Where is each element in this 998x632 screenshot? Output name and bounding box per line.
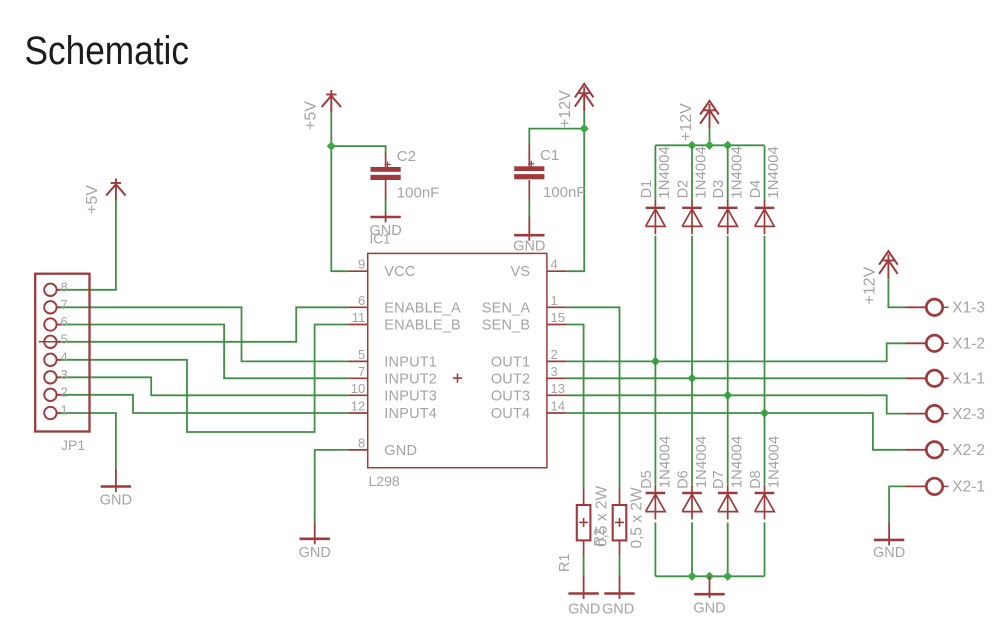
wire R1 to GND segment	[583, 554, 585, 575]
svg-text:L298: L298	[369, 473, 400, 489]
JP1 pin 4	[44, 354, 56, 366]
svg-text:14: 14	[551, 399, 565, 414]
wire IC1 pin 8 to GND	[315, 450, 349, 521]
wire OUT1 row to X1-2	[566, 343, 905, 361]
node junction bottom bus at GND stem	[705, 572, 714, 581]
wire +5V node to C2	[331, 146, 385, 153]
svg-text:1N4004: 1N4004	[765, 436, 782, 489]
resistor R2	[619, 488, 621, 505]
svg-text:GND: GND	[299, 545, 331, 561]
connector JP1 box	[35, 274, 89, 432]
node junction bus at +12V arrow	[705, 141, 714, 150]
svg-text:3: 3	[551, 364, 558, 379]
wire SEN_B to R1	[566, 325, 583, 488]
wire JP1 pin 6 to INPUT2	[57, 325, 349, 379]
wire +5V node to VCC	[331, 109, 348, 272]
svg-text:SEN_A: SEN_A	[482, 300, 531, 316]
wire +12V to X1-3	[888, 278, 905, 307]
pad X1-1	[906, 377, 927, 379]
wire diode column D1/D5	[654, 145, 656, 199]
svg-text:X1-3: X1-3	[952, 300, 985, 317]
IC1 left pin 5 INPUT1	[348, 360, 368, 362]
wire C1 to GND segment	[528, 200, 530, 217]
node junction OUT4 at D4 column	[760, 408, 769, 417]
svg-text:ENABLE_B: ENABLE_B	[384, 318, 461, 334]
pad X2-2	[906, 449, 927, 451]
capacitor C2	[385, 153, 387, 167]
wire JP1 pin 7 to INPUT1	[57, 307, 349, 361]
svg-text:X1-1: X1-1	[952, 371, 985, 388]
IC1 right pin 15 SEN_B	[547, 324, 567, 326]
svg-text:D7: D7	[711, 470, 727, 489]
svg-text:D4: D4	[748, 180, 764, 199]
IC1 left pin 12 INPUT4	[348, 412, 368, 414]
wire GND bus below diodes	[655, 575, 764, 577]
wire diode column D3/D7	[727, 145, 729, 199]
wire OUT4 row to X2-2	[566, 413, 905, 450]
node junction OUT3 at D3 column	[723, 391, 732, 400]
node junction OUT2 at D2 column	[687, 374, 696, 383]
svg-text:GND: GND	[369, 223, 401, 239]
svg-text:100nF: 100nF	[397, 184, 440, 201]
svg-text:SEN_B: SEN_B	[482, 318, 531, 334]
JP1 pin 7	[44, 301, 56, 313]
IC1 left pin 11 ENABLE_B	[348, 324, 368, 326]
svg-text:X2-1: X2-1	[952, 479, 985, 496]
pad X1-3	[906, 306, 927, 308]
wire diode column D2/D6	[691, 145, 693, 199]
capacitor C1	[528, 144, 530, 166]
ground symbol at X2-1	[888, 523, 890, 546]
svg-text:VS: VS	[511, 264, 531, 280]
+5V supply symbol at JP1	[115, 179, 117, 201]
IC1 right pin 3 OUT2	[547, 377, 567, 379]
IC1 right pin 2 OUT1	[547, 360, 567, 362]
diode D4	[755, 207, 775, 209]
svg-text:C1: C1	[540, 147, 559, 164]
resistor R1	[583, 488, 585, 505]
svg-text:1: 1	[551, 293, 558, 308]
svg-text:INPUT4: INPUT4	[384, 406, 437, 422]
svg-text:1N4004: 1N4004	[729, 436, 746, 489]
svg-text:1N4004: 1N4004	[693, 146, 710, 199]
IC1 left pin 9 VCC	[348, 270, 368, 272]
JP1 pin 3	[44, 371, 56, 383]
node junction OUT1 at D1 column	[651, 357, 660, 366]
node junction bottom bus at D6	[687, 572, 696, 581]
svg-text:1N4004: 1N4004	[765, 146, 782, 199]
diode D7	[718, 492, 738, 494]
svg-text:X2-2: X2-2	[952, 442, 985, 459]
wire +12V node to C1	[529, 129, 584, 145]
node junction bottom bus at D7	[723, 572, 732, 581]
JP1 pin 5	[44, 336, 56, 348]
svg-text:1N4004: 1N4004	[656, 436, 673, 489]
svg-text:GND: GND	[602, 601, 634, 617]
ground symbol at R2	[619, 575, 621, 599]
svg-text:GND: GND	[693, 601, 725, 617]
svg-text:D2: D2	[676, 180, 692, 199]
svg-text:Schematic: Schematic	[25, 29, 190, 73]
ground symbol at C2	[385, 212, 387, 222]
pad X2-3	[906, 413, 927, 415]
svg-text:GND: GND	[873, 545, 905, 561]
wire OUT2 row to X1-1	[566, 377, 905, 379]
IC1 origin cross	[453, 377, 462, 379]
svg-text:D1: D1	[639, 180, 655, 199]
wire +5V to JP1 pin 8	[57, 200, 116, 290]
JP1 origin cross	[39, 341, 60, 343]
svg-text:+12V: +12V	[678, 103, 695, 141]
svg-text:D3: D3	[711, 180, 727, 199]
svg-text:ENABLE_A: ENABLE_A	[384, 300, 461, 316]
node +12V junction at C1 branch	[580, 124, 589, 133]
node junction bus at D2	[687, 141, 696, 150]
IC1 right pin 4 VS	[547, 270, 567, 272]
wire C2 to GND segment	[385, 200, 387, 213]
svg-text:100nF: 100nF	[543, 184, 586, 201]
wire SEN_A to R2	[566, 307, 619, 488]
svg-text:C2: C2	[397, 148, 416, 165]
pad X2-1	[906, 485, 927, 487]
IC1 left pin 8 GND	[348, 449, 368, 451]
svg-text:1N4004: 1N4004	[728, 146, 745, 199]
svg-text:INPUT3: INPUT3	[384, 388, 437, 404]
+12V supply symbol at C1	[583, 87, 585, 111]
node +5V junction at C2 branch	[327, 142, 336, 151]
svg-text:6: 6	[358, 293, 365, 308]
svg-text:INPUT2: INPUT2	[384, 371, 437, 387]
wire JP1 pin 1 to GND	[57, 413, 116, 468]
JP1 pin 6	[44, 318, 56, 330]
svg-text:R2: R2	[592, 528, 608, 547]
pad X1-2	[906, 342, 927, 344]
svg-text:D6: D6	[676, 470, 692, 489]
svg-text:11: 11	[352, 310, 366, 325]
node junction bus at D3	[723, 141, 732, 150]
JP1 pin 1	[44, 407, 56, 419]
svg-text:GND: GND	[513, 239, 545, 255]
ground symbol at JP1 pin 1	[115, 468, 117, 492]
svg-text:4: 4	[551, 257, 558, 272]
svg-text:1N4004: 1N4004	[693, 436, 710, 489]
wire +12V arrow to bus	[709, 127, 711, 145]
svg-text:8: 8	[358, 435, 365, 450]
ground symbol at IC1 pin 8	[314, 521, 316, 544]
svg-text:GND: GND	[100, 492, 132, 508]
+12V supply symbol above diodes	[709, 104, 711, 128]
ground symbol at C1	[528, 217, 530, 241]
svg-text:+5V: +5V	[303, 101, 320, 130]
svg-text:5: 5	[358, 347, 365, 362]
svg-text:X2-3: X2-3	[952, 406, 985, 423]
wire +12V bus above diodes	[655, 144, 764, 146]
diode D6	[682, 492, 702, 494]
svg-text:1N4004: 1N4004	[656, 146, 673, 199]
wire JP1 pin 5 to ENABLE_A	[57, 307, 349, 342]
+5V supply symbol at C2	[330, 90, 332, 112]
wire R2 to GND segment	[619, 554, 621, 575]
wire diode column D4/D8	[764, 145, 766, 199]
svg-text:INPUT1: INPUT1	[384, 354, 437, 370]
wire OUT3 row to X2-3	[566, 395, 905, 413]
ground symbol at R1	[583, 575, 585, 599]
svg-text:8: 8	[61, 279, 68, 294]
diode D3	[718, 207, 738, 209]
svg-text:2: 2	[551, 347, 558, 362]
IC1 right pin 13 OUT3	[547, 394, 567, 396]
svg-text:3: 3	[61, 367, 68, 382]
svg-text:OUT1: OUT1	[491, 354, 530, 370]
svg-text:R1: R1	[557, 553, 573, 572]
svg-text:2: 2	[61, 384, 68, 399]
svg-text:0,5 x 2W: 0,5 x 2W	[629, 487, 646, 549]
svg-text:JP1: JP1	[61, 437, 85, 453]
svg-text:+12V: +12V	[557, 90, 574, 128]
svg-text:12: 12	[351, 399, 365, 414]
diode D2	[682, 207, 702, 209]
svg-text:1: 1	[61, 403, 68, 418]
IC1 right pin 14 OUT4	[547, 412, 567, 414]
svg-text:VCC: VCC	[384, 264, 415, 280]
svg-text:6: 6	[61, 314, 68, 329]
diode D1	[646, 207, 666, 209]
IC1 left pin 6 ENABLE_A	[348, 306, 368, 308]
svg-text:OUT4: OUT4	[491, 406, 530, 422]
op-amp U IC1 L298 box	[368, 253, 547, 467]
svg-text:D5: D5	[639, 470, 655, 489]
svg-text:5: 5	[61, 331, 68, 346]
svg-text:10: 10	[351, 381, 365, 396]
svg-text:OUT3: OUT3	[491, 388, 530, 404]
IC1 left pin 10 INPUT3	[348, 394, 368, 396]
wire +12V node to VS	[566, 111, 584, 272]
diode D8	[755, 492, 775, 494]
svg-text:OUT2: OUT2	[491, 371, 530, 387]
IC1 right pin 1 SEN_A	[547, 306, 567, 308]
wire JP1 pin 2 to INPUT4	[57, 395, 349, 413]
JP1 pin 2	[44, 389, 56, 401]
svg-text:X1-2: X1-2	[952, 336, 985, 353]
svg-text:13: 13	[551, 381, 565, 396]
svg-text:+12V: +12V	[862, 266, 879, 304]
wire JP1 pin 3 to INPUT3	[57, 377, 349, 395]
wire JP1 pin 4 to ENABLE_B	[57, 325, 349, 433]
IC1 left pin 7 INPUT2	[348, 377, 368, 379]
svg-text:+5V: +5V	[84, 185, 101, 214]
diode D5	[646, 492, 666, 494]
svg-text:4: 4	[61, 349, 68, 364]
wire X2-1 to GND	[889, 486, 905, 522]
ground symbol at diode bus	[709, 576, 711, 598]
JP1 pin 8	[44, 284, 56, 296]
svg-text:9: 9	[358, 257, 365, 272]
svg-text:7: 7	[358, 364, 365, 379]
svg-text:GND: GND	[384, 443, 417, 459]
svg-text:15: 15	[551, 310, 565, 325]
svg-text:7: 7	[61, 297, 68, 312]
svg-text:GND: GND	[568, 601, 600, 617]
+12V supply symbol at X1-3	[887, 254, 889, 278]
svg-text:D8: D8	[748, 470, 764, 489]
